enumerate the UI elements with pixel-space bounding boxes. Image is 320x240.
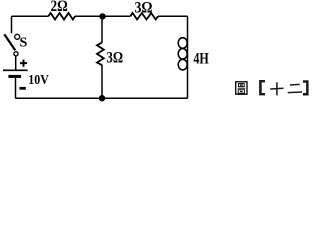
wire switch to battery — [15, 56, 17, 69]
label minus — [20, 87, 26, 90]
label plus — [20, 60, 27, 67]
svg-text:3Ω: 3Ω — [135, 0, 153, 16]
caption character two — [288, 84, 302, 92]
battery 10V positive plate — [3, 69, 28, 71]
resistor 3-ohm middle vertical zigzag — [97, 43, 104, 66]
node A junction dot top — [99, 13, 105, 19]
wire bottom — [15, 97, 187, 99]
label S — [20, 36, 28, 51]
wire battery to bottom — [15, 78, 17, 98]
inductor 4H coil loops — [178, 38, 187, 70]
svg-text:10V: 10V — [28, 73, 49, 88]
label 3 ohm top — [135, 0, 153, 16]
wire top (node A to 3-ohm resistor) — [102, 15, 130, 17]
svg-text:4H: 4H — [193, 51, 209, 68]
switch S bottom terminal — [14, 52, 18, 56]
svg-text:S: S — [20, 36, 28, 51]
resistor 2-ohm zigzag — [48, 13, 75, 20]
resistor 3-ohm top zigzag — [130, 13, 158, 20]
wire top (left segment to 2-ohm resistor) — [12, 15, 49, 17]
svg-text:3Ω: 3Ω — [107, 49, 124, 66]
wire middle branch lower — [101, 65, 103, 99]
caption right lenticular bracket — [303, 80, 309, 95]
label 4H — [193, 51, 209, 68]
caption left lenticular bracket — [259, 80, 265, 95]
switch S blade — [4, 34, 15, 50]
label 2 ohm — [51, 0, 68, 15]
wire top (2-ohm to node A) — [75, 15, 102, 17]
caption character ten — [270, 82, 283, 95]
label 10V — [28, 73, 49, 88]
caption character TU (figure) — [236, 82, 247, 94]
wire top (3-ohm to right corner) — [158, 15, 188, 17]
battery 10V negative plate — [8, 75, 21, 78]
svg-text:2Ω: 2Ω — [51, 0, 68, 15]
switch S top terminal — [15, 34, 20, 39]
node B junction dot bottom — [99, 95, 105, 101]
wire middle branch upper — [101, 16, 103, 42]
wire right vertical — [187, 16, 189, 98]
wire left top vertical to switch — [11, 16, 13, 33]
label 3 ohm middle — [107, 49, 124, 66]
